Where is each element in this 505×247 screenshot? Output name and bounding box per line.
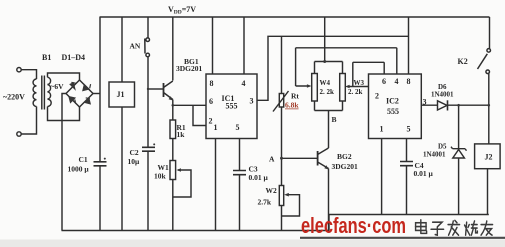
svg-text:B1: B1 [42, 53, 51, 62]
svg-text:W3: W3 [354, 79, 365, 87]
svg-text:A: A [269, 155, 275, 164]
svg-text:C2: C2 [130, 148, 139, 157]
svg-text:1000 μ: 1000 μ [68, 165, 90, 174]
svg-text:1: 1 [380, 125, 384, 134]
svg-text:J1: J1 [117, 90, 125, 99]
svg-text:5: 5 [236, 123, 240, 132]
svg-text:elecfans·com: elecfans·com [301, 213, 406, 238]
svg-text:555: 555 [387, 107, 399, 116]
svg-text:2. 2k: 2. 2k [320, 88, 335, 96]
svg-text:3DG201: 3DG201 [332, 162, 359, 171]
svg-text:0.01 μ: 0.01 μ [249, 173, 269, 182]
svg-text:3: 3 [250, 97, 254, 106]
svg-text:8: 8 [407, 77, 411, 86]
svg-text:10k: 10k [154, 172, 167, 181]
svg-text:6.8k: 6.8k [285, 101, 299, 110]
svg-text:4: 4 [395, 77, 399, 86]
svg-text:2.7k: 2.7k [258, 198, 272, 207]
svg-text:BG2: BG2 [337, 152, 352, 161]
svg-text:D5: D5 [438, 143, 447, 151]
svg-text:8: 8 [210, 79, 214, 88]
svg-text:D1–D4: D1–D4 [62, 53, 86, 62]
svg-text:0.01 μ: 0.01 μ [414, 169, 434, 178]
svg-text:10μ: 10μ [128, 157, 141, 166]
svg-text:3: 3 [423, 98, 427, 107]
svg-text:2: 2 [209, 117, 213, 126]
svg-text:5: 5 [407, 125, 411, 134]
svg-text:~6V: ~6V [51, 82, 65, 91]
svg-text:555: 555 [226, 102, 238, 111]
svg-text:AN: AN [130, 41, 141, 50]
svg-text:6: 6 [382, 77, 386, 86]
svg-text:IC2: IC2 [386, 97, 399, 106]
svg-text:B: B [332, 115, 337, 124]
svg-text:W4: W4 [320, 79, 331, 87]
svg-text:Rt: Rt [291, 92, 299, 101]
svg-text:1: 1 [214, 123, 218, 132]
svg-text:1k: 1k [177, 130, 186, 139]
svg-text:2. 2k: 2. 2k [348, 88, 363, 96]
svg-text:4: 4 [242, 79, 246, 88]
svg-text:3DG201: 3DG201 [176, 64, 203, 73]
svg-text:1N4001: 1N4001 [431, 91, 454, 99]
svg-text:1N4001: 1N4001 [423, 151, 446, 159]
svg-text:J2: J2 [485, 153, 493, 162]
svg-text:~220V: ~220V [3, 93, 25, 102]
svg-text:VDD=7V: VDD=7V [168, 5, 196, 16]
svg-text:2: 2 [375, 92, 379, 101]
svg-text:6: 6 [209, 97, 213, 106]
svg-text:K2: K2 [458, 57, 468, 66]
svg-text:C1: C1 [79, 155, 88, 164]
svg-text:W2: W2 [266, 186, 278, 195]
